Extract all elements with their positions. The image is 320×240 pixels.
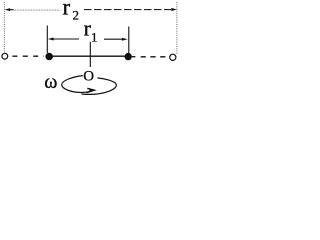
background bbox=[0, 0, 183, 100]
r2 dimension left arrowhead bbox=[5, 8, 11, 11]
dashed line left bbox=[12, 55, 44, 57]
svg-text:ω: ω bbox=[44, 71, 57, 93]
dashed line right bbox=[141, 56, 166, 58]
r1 left arrowhead and shaft bbox=[48, 38, 54, 41]
svg-text:1: 1 bbox=[91, 29, 98, 44]
wire stub right of mass bbox=[132, 56, 136, 58]
mass right bbox=[125, 53, 132, 60]
rotation arrowhead bbox=[86, 88, 94, 92]
rotation arrow right arc bbox=[82, 78, 117, 95]
svg-text:r: r bbox=[63, 0, 71, 20]
r2 dimension right arrowhead bbox=[171, 8, 177, 11]
mass left bbox=[45, 53, 53, 61]
r1 tick right bbox=[128, 27, 130, 54]
extension tick right (r2) bbox=[176, 2, 178, 54]
extension tick left (r2) bbox=[3, 2, 5, 53]
r2 dimension right dashed line bbox=[84, 9, 171, 11]
svg-text:2: 2 bbox=[73, 8, 80, 23]
rotation axis line bbox=[89, 42, 91, 67]
rotation arrow left arc bbox=[62, 76, 93, 93]
r1 right shaft and arrowhead bbox=[104, 38, 123, 40]
r2 dimension left dotted line bbox=[14, 9, 61, 11]
right pivot open circle bbox=[170, 54, 176, 60]
svg-text:O: O bbox=[83, 68, 94, 84]
r1 tick left bbox=[46, 26, 48, 54]
rod bbox=[49, 55, 129, 57]
left pivot open circle bbox=[2, 53, 8, 59]
